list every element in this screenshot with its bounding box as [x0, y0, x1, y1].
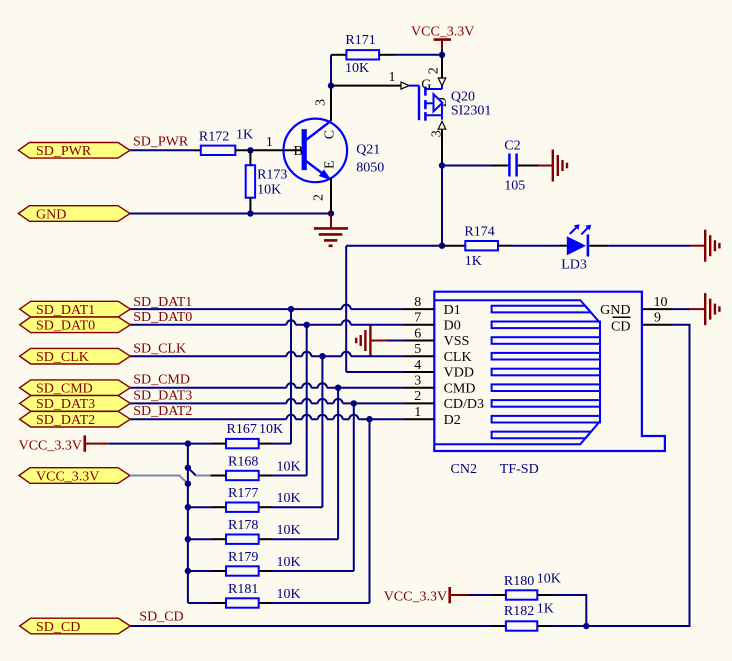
- connector CN2 body: [434, 292, 665, 451]
- svg-text:105: 105: [504, 179, 525, 194]
- svg-text:2: 2: [312, 194, 327, 201]
- pin arrow Q20 pin2: [438, 78, 446, 86]
- wire R168 right: [259, 475, 273, 477]
- svg-text:D1: D1: [444, 303, 461, 318]
- svg-text:1: 1: [414, 405, 421, 420]
- port SD_PWR: [18, 143, 130, 160]
- svg-text:VSS: VSS: [444, 334, 470, 349]
- svg-text:R173: R173: [257, 167, 287, 182]
- svg-text:10K: 10K: [345, 61, 369, 76]
- svg-text:SD_CMD: SD_CMD: [133, 373, 190, 388]
- svg-text:R177: R177: [228, 486, 258, 501]
- svg-text:CD: CD: [611, 319, 630, 334]
- resistor R168: [226, 455, 301, 481]
- wire VCC to R180: [469, 594, 492, 596]
- wire R167 right: [259, 443, 273, 445]
- wire R172 to Q21 base: [235, 149, 301, 151]
- wire R180 right: [537, 594, 551, 596]
- svg-text:1: 1: [266, 135, 273, 150]
- pin 9 CD: [611, 311, 673, 335]
- resistor R179: [226, 550, 301, 576]
- wire GND row: [130, 213, 331, 215]
- wire C2 row: [442, 165, 492, 167]
- svg-text:CLK: CLK: [444, 350, 472, 365]
- pin 5 CLK: [403, 342, 471, 365]
- wire VCC to Q20 pin2: [441, 55, 443, 78]
- svg-text:Q20: Q20: [451, 90, 475, 105]
- junction SD_DAT2 drop: [366, 416, 372, 422]
- svg-text:VCC_3.3V: VCC_3.3V: [36, 469, 99, 484]
- wire SD_CMD drop vertical: [337, 388, 339, 540]
- junction SD_CMD drop: [335, 385, 341, 391]
- junction bus R178: [185, 536, 191, 542]
- wire SD_CLK row: [130, 352, 403, 357]
- junction bus top: [185, 440, 191, 446]
- svg-text:VCC_3.3V: VCC_3.3V: [19, 438, 82, 453]
- wire R182 right: [537, 625, 551, 627]
- wire VCC bus vertical: [187, 444, 189, 603]
- wire R179 right: [259, 570, 273, 572]
- wire gate row: [331, 85, 401, 87]
- port SD_CD: [20, 618, 131, 635]
- wire R179 left: [188, 570, 212, 572]
- svg-text:8: 8: [414, 295, 421, 310]
- wire SD_DAT0 row: [130, 320, 403, 325]
- svg-text:SD_PWR: SD_PWR: [36, 144, 92, 159]
- svg-text:10K: 10K: [277, 587, 301, 602]
- wire SD_CLK drop vertical: [321, 356, 323, 507]
- svg-text:VCC_3.3V: VCC_3.3V: [384, 590, 447, 605]
- pin 1 D2: [403, 405, 461, 428]
- svg-text:8050: 8050: [356, 161, 384, 176]
- svg-text:10K: 10K: [257, 183, 281, 198]
- resistor R180: [504, 572, 561, 600]
- wire R171 left vertical: [330, 55, 332, 86]
- wire SD_CD row: [130, 625, 491, 627]
- svg-text:SD_DAT3: SD_DAT3: [133, 388, 192, 403]
- svg-text:1K: 1K: [236, 127, 253, 142]
- resistor R167: [226, 422, 283, 448]
- junction base/R173: [247, 147, 253, 153]
- wire SD_PWR row: [130, 149, 194, 151]
- resistor R171: [331, 33, 379, 76]
- wire SD_DAT3 drop vertical: [353, 403, 355, 571]
- ground symbol pin10: [705, 293, 719, 325]
- svg-text:R168: R168: [228, 455, 258, 470]
- svg-text:SD_CLK: SD_CLK: [36, 350, 89, 365]
- resistor R173: [246, 150, 288, 213]
- wire Q21 collector: [330, 86, 332, 121]
- svg-text:10K: 10K: [277, 491, 301, 506]
- wire R171 to VCC junction: [379, 54, 393, 56]
- svg-text:VCC_3.3V: VCC_3.3V: [411, 25, 474, 40]
- power VCC_3.3V bottom: [384, 587, 469, 605]
- wire Q20 pin3 down: [441, 129, 443, 165]
- wire C2 junction down: [441, 166, 443, 246]
- svg-text:10K: 10K: [277, 555, 301, 570]
- junction bus R177: [185, 504, 191, 510]
- svg-text:10K: 10K: [277, 460, 301, 475]
- transistor Q21: [284, 119, 348, 183]
- wire R174 row left: [346, 245, 442, 247]
- wire VDD drop: [345, 246, 347, 372]
- svg-text:10: 10: [654, 295, 668, 310]
- svg-text:R180: R180: [504, 574, 534, 589]
- svg-text:GND: GND: [36, 207, 66, 222]
- svg-text:9: 9: [654, 311, 661, 326]
- svg-text:1K: 1K: [465, 254, 482, 269]
- svg-text:SD_CMD: SD_CMD: [36, 382, 93, 397]
- svg-text:4: 4: [414, 358, 421, 373]
- junction SD_DAT1 drop: [288, 306, 294, 312]
- svg-text:E: E: [323, 160, 338, 169]
- wire SD_CMD row: [130, 383, 403, 388]
- pin 3 CMD: [403, 374, 475, 397]
- svg-text:3: 3: [414, 374, 421, 389]
- resistor R172: [194, 127, 253, 155]
- resistor R174: [442, 225, 498, 270]
- svg-text:C: C: [323, 130, 338, 139]
- junction VCC tee: [439, 52, 445, 58]
- svg-text:R172: R172: [199, 129, 229, 144]
- svg-text:LD3: LD3: [561, 258, 587, 273]
- wire SD_DAT1 row: [130, 305, 403, 310]
- wire SD_DAT1 drop vertical: [290, 309, 292, 444]
- svg-text:10K: 10K: [259, 422, 283, 437]
- wire VDD row: [346, 371, 403, 373]
- wire R181 left: [188, 602, 212, 604]
- junction bus diag upper: [185, 465, 191, 471]
- wire R174 to LED: [498, 245, 512, 247]
- port VCC_3.3V: [19, 468, 130, 485]
- svg-text:SD_DAT1: SD_DAT1: [133, 295, 192, 310]
- junction C2 tee: [439, 162, 445, 168]
- wire R168 left: [211, 475, 227, 477]
- port SD_CLK: [20, 348, 131, 365]
- svg-text:D2: D2: [444, 413, 461, 428]
- svg-text:VDD: VDD: [444, 366, 474, 381]
- wire R167 left: [188, 443, 212, 445]
- svg-text:R167: R167: [227, 422, 257, 437]
- port SD_DAT3: [20, 396, 131, 413]
- port GND: [18, 206, 130, 223]
- svg-text:R171: R171: [345, 33, 375, 48]
- junction R174 tee: [439, 243, 445, 249]
- ground symbol right of LD3: [705, 230, 719, 262]
- wire R177 right: [259, 506, 273, 508]
- svg-text:GND: GND: [600, 303, 630, 318]
- svg-text:10K: 10K: [537, 572, 561, 587]
- svg-text:SD_DAT0: SD_DAT0: [133, 310, 192, 325]
- svg-text:R178: R178: [228, 518, 258, 533]
- wire SD_DAT3 row: [130, 399, 403, 403]
- port SD_DAT1: [20, 301, 131, 318]
- svg-text:2: 2: [414, 389, 421, 404]
- svg-text:SD_PWR: SD_PWR: [133, 134, 189, 149]
- wire LED to ground: [589, 245, 608, 247]
- LED LD3: [567, 224, 591, 256]
- svg-text:SD_DAT2: SD_DAT2: [133, 404, 192, 419]
- wire Q21 emitter: [330, 178, 332, 214]
- pin 8 D1: [403, 295, 461, 318]
- svg-text:SD_DAT3: SD_DAT3: [36, 397, 95, 412]
- junction bus diag lower: [185, 481, 191, 487]
- resistor R181: [226, 582, 301, 608]
- pin 10 GND: [600, 295, 673, 318]
- junction R180/R182: [583, 623, 589, 629]
- svg-text:D0: D0: [444, 319, 461, 334]
- svg-text:B: B: [294, 144, 303, 159]
- wire R177 left: [188, 506, 212, 508]
- svg-text:1K: 1K: [537, 602, 554, 617]
- resistor R177: [226, 486, 301, 512]
- junction gate tee: [328, 82, 334, 88]
- svg-text:SD_CLK: SD_CLK: [133, 341, 186, 356]
- wire R178 left: [188, 538, 212, 540]
- svg-text:R179: R179: [228, 550, 258, 565]
- transistor Q20: [410, 78, 451, 121]
- wire diag to R168: [188, 468, 196, 476]
- svg-text:SD_DAT2: SD_DAT2: [36, 413, 95, 428]
- wire SD_DAT2 row: [130, 415, 403, 420]
- ground symbol below Q21: [314, 214, 348, 246]
- wire C2 to ground: [518, 165, 538, 167]
- svg-text:3: 3: [314, 99, 329, 106]
- pin arrow Q20 gate: [401, 82, 409, 89]
- power VCC_3.3V left: [19, 435, 109, 453]
- port SD_DAT0: [20, 317, 131, 334]
- wire VCC to R167: [108, 443, 188, 445]
- resistor R178: [226, 518, 301, 544]
- junction SD_DAT0 drop: [304, 322, 310, 328]
- svg-text:CN2: CN2: [451, 462, 477, 477]
- wire VCC flag to bus: [130, 476, 188, 484]
- svg-text:C2: C2: [504, 139, 520, 154]
- port SD_DAT2: [20, 411, 131, 428]
- svg-text:Q21: Q21: [356, 143, 380, 158]
- port SD_CMD: [20, 380, 131, 397]
- junction SD_DAT3 drop: [351, 400, 357, 406]
- junction Q21 emitter/GND: [328, 210, 334, 216]
- svg-text:10K: 10K: [277, 523, 301, 538]
- svg-text:G: G: [421, 78, 431, 93]
- svg-text:5: 5: [414, 342, 421, 357]
- svg-text:CD/D3: CD/D3: [444, 397, 484, 412]
- ground symbol right of C2: [553, 150, 567, 182]
- svg-text:CMD: CMD: [444, 381, 476, 396]
- wire pin10 to ground: [673, 308, 690, 310]
- svg-text:SD_DAT1: SD_DAT1: [36, 303, 95, 318]
- svg-text:SD_CD: SD_CD: [36, 620, 80, 635]
- svg-text:6: 6: [414, 326, 421, 341]
- pin arrow Q20 pin3: [438, 121, 446, 129]
- svg-text:SI2301: SI2301: [451, 104, 491, 119]
- wire pin9 right vertical: [586, 325, 689, 626]
- wire R178 right: [259, 538, 273, 540]
- pin 7 D0: [403, 311, 461, 334]
- ground symbol VSS: [356, 325, 386, 357]
- junction SD_CLK drop: [319, 353, 325, 359]
- card contact stripes: [492, 306, 600, 438]
- wire SD_DAT0 drop vertical: [306, 325, 308, 476]
- junction R173/GND: [247, 210, 253, 216]
- pin 2 CD/D3: [403, 389, 484, 412]
- svg-text:2: 2: [427, 67, 442, 74]
- svg-text:R181: R181: [228, 582, 258, 597]
- pin 6 VSS: [403, 326, 469, 349]
- svg-text:R182: R182: [504, 604, 534, 619]
- svg-text:7: 7: [414, 311, 421, 326]
- svg-text:TF-SD: TF-SD: [500, 462, 539, 477]
- power VCC_3.3V top: [411, 25, 474, 55]
- resistor R182: [492, 602, 554, 631]
- pin 4 VDD: [403, 358, 474, 381]
- svg-text:R174: R174: [464, 225, 494, 240]
- wire VSS to pin6: [387, 340, 404, 342]
- capacitor C2: [504, 139, 525, 194]
- svg-text:SD_DAT0: SD_DAT0: [36, 319, 95, 334]
- svg-text:SD_CD: SD_CD: [139, 610, 183, 625]
- svg-text:1: 1: [389, 70, 396, 85]
- wire R181 right: [259, 602, 273, 604]
- wire SD_DAT2 drop vertical: [369, 419, 371, 603]
- junction bus R179: [185, 568, 191, 574]
